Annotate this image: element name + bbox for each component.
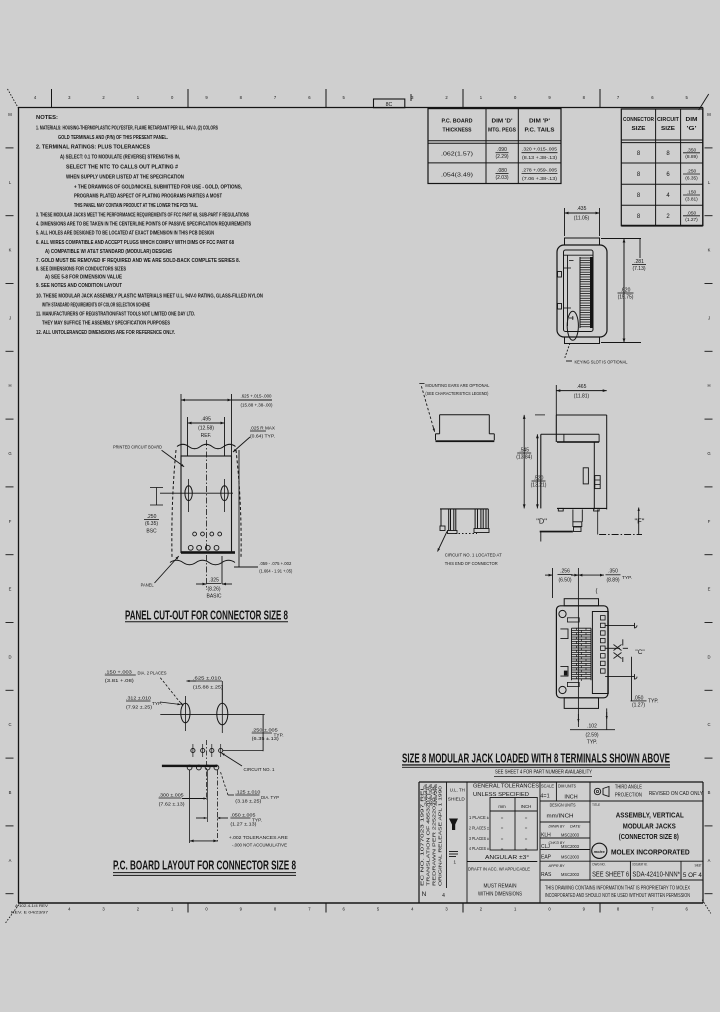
svg-text:8C: 8C: [386, 102, 393, 108]
svg-text:PROJECTION: PROJECTION: [615, 793, 642, 799]
table: P.C. board thickness / mtg pegs / pc tails: [428, 109, 561, 184]
svg-text:BSC: BSC: [146, 529, 157, 535]
svg-text:.435: .435: [577, 206, 587, 212]
svg-text:U.L. TH: U.L. TH: [450, 788, 465, 793]
svg-text:CIRCUIT NO. 1 LOCATED AT: CIRCUIT NO. 1 LOCATED AT: [445, 553, 502, 559]
svg-text:2 PLACES ±: 2 PLACES ±: [469, 826, 489, 831]
dim .256: [552, 568, 554, 598]
body left wall: [540, 434, 542, 508]
svg-text:REV. E 04/23/97: REV. E 04/23/97: [11, 910, 49, 915]
svg-text:SCALE: SCALE: [541, 784, 554, 789]
svg-text:DRWN BY: DRWN BY: [549, 824, 565, 829]
svg-text:E: E: [708, 587, 711, 592]
small detail top center: [567, 618, 579, 622]
tail holes row 2: [187, 765, 192, 770]
svg-text:mm: mm: [498, 804, 506, 809]
svg-text:MODULAR JACKS: MODULAR JACKS: [623, 821, 676, 830]
svg-text:(13.21): (13.21): [531, 483, 547, 489]
dim .350 typ: [578, 574, 604, 576]
dim .325 basic bottom: [221, 556, 223, 584]
body top mating section: [556, 414, 606, 416]
svg-text:A) SEE 5-8 FOR DIMENSION VALUE: A) SEE 5-8 FOR DIMENSION VALUE: [45, 275, 123, 281]
svg-text:5. ALL HOLES ARE DESIGNED TO B: 5. ALL HOLES ARE DESIGNED TO BE LOCATED …: [36, 231, 214, 237]
svg-text:.325: .325: [209, 578, 219, 584]
svg-text:(7.06 +.38-.13): (7.06 +.38-.13): [522, 176, 557, 182]
feet: [558, 508, 563, 511]
dim .102 bottom: [606, 708, 608, 729]
svg-text:DIA. 2 PLACES: DIA. 2 PLACES: [138, 671, 167, 677]
svg-text:SHEET: SHEET: [695, 864, 702, 868]
svg-text:SDA-42410-NNN*: SDA-42410-NNN*: [632, 869, 680, 878]
svg-text:C: C: [8, 722, 11, 727]
svg-text:MOLEX INCORPORATED: MOLEX INCORPORATED: [611, 848, 690, 857]
svg-text:SEE SHEET 4 FOR PART NUMBER AV: SEE SHEET 4 FOR PART NUMBER AVAILABILITY: [495, 770, 592, 776]
svg-text:DRAFT IN ACC. W/ APPLICABLE: DRAFT IN ACC. W/ APPLICABLE: [468, 867, 530, 872]
dim .250 BSC: [150, 487, 163, 489]
tail holes row 1: [191, 748, 195, 752]
svg-text:(15.75): (15.75): [618, 295, 634, 301]
svg-text:"F": "F": [635, 517, 645, 526]
svg-text:A 102.4-1/4 REV: A 102.4-1/4 REV: [15, 903, 48, 908]
terminal brick field: [572, 627, 592, 629]
svg-text:(6.35): (6.35): [685, 175, 698, 181]
dim .545 left: [535, 414, 545, 416]
frame border left: [18, 108, 20, 904]
svg-text:"C": "C": [635, 649, 645, 656]
svg-text:6. ALL WIRES COMPATIBLE AND AC: 6. ALL WIRES COMPATIBLE AND ACCEPT PLUGS…: [36, 240, 234, 246]
svg-text:(6.35): (6.35): [145, 521, 158, 527]
svg-text:MSC2003: MSC2003: [561, 844, 579, 849]
svg-text:DATE: DATE: [570, 824, 581, 829]
center line horizontal: [160, 714, 264, 716]
svg-text:(1.664 - 1.91 +.05): (1.664 - 1.91 +.05): [259, 569, 292, 574]
third angle projection symbol: [594, 788, 600, 794]
svg-text:(0.64) TYP.: (0.64) TYP.: [250, 434, 275, 440]
svg-text:=: =: [501, 846, 504, 851]
svg-text:MSC2003: MSC2003: [561, 872, 579, 877]
svg-text:H: H: [8, 383, 11, 388]
svg-text:=: =: [525, 826, 528, 831]
dimension .435 top width: [565, 212, 600, 214]
svg-text:KLH: KLH: [541, 833, 551, 839]
svg-text:PROGRAMS PLATED ASPECT OF PLAT: PROGRAMS PLATED ASPECT OF PLATING PROGRA…: [74, 194, 222, 200]
svg-text:P.C. TAILS: P.C. TAILS: [525, 128, 555, 134]
body bottom: [557, 507, 607, 509]
svg-text:TYP.: TYP.: [622, 575, 632, 581]
svg-text:(7.92 ±.25): (7.92 ±.25): [126, 704, 152, 710]
svg-text:(12.58): (12.58): [198, 426, 214, 432]
svg-text:CIRCUIT NO. 1: CIRCUIT NO. 1: [244, 767, 275, 773]
svg-text:(1.27): (1.27): [632, 702, 645, 708]
svg-text:THIS PANEL MAY CONTAIN PRODUCT: THIS PANEL MAY CONTAIN PRODUCT AT THE LO…: [74, 203, 198, 209]
svg-text:F: F: [9, 519, 12, 524]
svg-text:MUST REMAIN: MUST REMAIN: [484, 884, 517, 890]
svg-text:TYP.: TYP.: [274, 733, 284, 739]
mounting peg below body: [572, 509, 574, 521]
corner diagonal top-left: [8, 89, 19, 108]
svg-text:N: N: [422, 891, 427, 898]
svg-text:.256: .256: [560, 569, 570, 575]
svg-text:INCH: INCH: [521, 804, 532, 809]
svg-text:GENERAL TOLERANCES: GENERAL TOLERANCES: [473, 784, 539, 790]
bottom dim line: [190, 840, 218, 842]
finish symbol: [449, 851, 458, 853]
sheet zone box 8C at top: [374, 99, 405, 108]
panel break dashed left: [172, 450, 176, 557]
title block verticals: [446, 782, 448, 888]
svg-text:(: (: [596, 589, 598, 595]
svg-text:E: E: [9, 587, 12, 592]
svg-text:(3.81): (3.81): [685, 196, 698, 202]
svg-text:4=1: 4=1: [540, 794, 549, 800]
svg-text:=: =: [501, 826, 504, 831]
svg-text:PANEL CUT-OUT FOR CONNECTOR SI: PANEL CUT-OUT FOR CONNECTOR SIZE 8: [125, 608, 288, 623]
svg-text:8. SEE DIMENSIONS FOR CONDUCTO: 8. SEE DIMENSIONS FOR CONDUCTORS SIZES: [36, 267, 127, 273]
right vertical dim line: [631, 657, 633, 701]
svg-text:.062(1.57): .062(1.57): [441, 152, 473, 158]
svg-text:.350: .350: [608, 569, 618, 575]
svg-text:4 PLACES ±: 4 PLACES ±: [469, 846, 489, 851]
svg-text:THEY MAY SUFFICE THE ASSEMBLY: THEY MAY SUFFICE THE ASSEMBLY SPECIFICAT…: [42, 321, 171, 327]
svg-text:PANEL: PANEL: [141, 583, 154, 589]
svg-text:DIM 'D': DIM 'D': [492, 119, 514, 125]
svg-text:DWG NO.: DWG NO.: [593, 863, 606, 867]
svg-text:(2.29): (2.29): [495, 154, 508, 160]
top tab: [564, 599, 598, 606]
dim .520 inner: [536, 434, 538, 508]
svg-text:+.002 TOLERANCES ARE: +.002 TOLERANCES ARE: [229, 835, 288, 841]
svg-text:B: B: [9, 790, 12, 795]
center line dashed: [206, 440, 208, 590]
svg-text:mm/INCH: mm/INCH: [547, 814, 574, 820]
svg-text:K: K: [708, 248, 711, 253]
svg-text:2/8/4/8: 2/8/4/8: [424, 784, 428, 806]
svg-text:(6.50): (6.50): [558, 578, 571, 584]
svg-text:(SEE CHARACTERISTICS LEGEND): (SEE CHARACTERISTICS LEGEND): [425, 391, 488, 397]
svg-text:MTG. PEGS: MTG. PEGS: [488, 128, 516, 134]
label mounting ears optional: [419, 383, 424, 385]
frame border top: [18, 107, 703, 109]
svg-text:C: C: [707, 722, 710, 727]
wavy board break top: [177, 444, 235, 448]
svg-text:THIRD ANGLE: THIRD ANGLE: [615, 785, 643, 791]
pcb line left thick: [540, 531, 573, 533]
triangle symbol: [449, 819, 458, 831]
svg-text:.278 +.059-.005: .278 +.059-.005: [522, 167, 557, 173]
terminal holes row 2: [188, 545, 193, 550]
svg-text:(15.88 +.38-.00): (15.88 +.38-.00): [241, 403, 273, 409]
svg-text:J: J: [9, 315, 11, 320]
dimension .620 right height: [601, 238, 641, 240]
svg-text:G: G: [707, 451, 710, 456]
svg-text:(11.81): (11.81): [574, 394, 590, 400]
svg-text:THICKNESS: THICKNESS: [443, 128, 472, 134]
svg-text:TYP.: TYP.: [252, 818, 262, 824]
bottom mounting tab: [565, 337, 600, 344]
svg-text:3 PLACES ±: 3 PLACES ±: [469, 836, 489, 841]
svg-text:9. SEE NOTES AND CONDITION LAY: 9. SEE NOTES AND CONDITION LAYOUT: [36, 283, 122, 289]
figure: connector end view: [440, 508, 488, 510]
tolerance table: [490, 798, 537, 851]
svg-text:SEE SHEET 6: SEE SHEET 6: [592, 869, 629, 878]
terminal exit block: [592, 612, 608, 694]
svg-text:DIM 'P': DIM 'P': [529, 119, 551, 125]
svg-text:APPR BY: APPR BY: [548, 863, 565, 868]
svg-text:DOCUMENT NO.: DOCUMENT NO.: [632, 863, 647, 867]
svg-text:7. GOLD MUST BE REMOVED IF REQ: 7. GOLD MUST BE REMOVED IF REQUIRED AND …: [36, 258, 241, 264]
svg-text:.495: .495: [201, 417, 211, 423]
svg-text:WITHIN DIMENSIONS: WITHIN DIMENSIONS: [478, 892, 523, 898]
svg-text:.465: .465: [577, 384, 587, 390]
svg-text:(7.62 ±.13): (7.62 ±.13): [159, 801, 185, 807]
svg-text:WITH STANDARD REQUIREMENTS OF: WITH STANDARD REQUIREMENTS OF COLOR SELE…: [42, 303, 150, 309]
svg-text:(7.13): (7.13): [632, 266, 645, 272]
terminal holes row 1: [193, 532, 197, 536]
svg-text:REVISED ON CAD ONLY: REVISED ON CAD ONLY: [649, 791, 703, 797]
label .059-.075 right: [234, 566, 258, 568]
svg-text:(8.89): (8.89): [606, 578, 619, 584]
svg-text:SIZE: SIZE: [632, 126, 646, 132]
svg-text:DIM UNITS: DIM UNITS: [558, 784, 576, 789]
svg-text:4. DIMENSIONS ARE TO BE TAKEN: 4. DIMENSIONS ARE TO BE TAKEN IN THE CEN…: [36, 222, 252, 228]
title block horizontals: [540, 800, 703, 802]
mounting holes: [185, 486, 192, 501]
label circuit no 1: [222, 753, 243, 766]
title block outline: [419, 781, 703, 783]
svg-text:12. ALL UNTOLERANCED DIMENSION: 12. ALL UNTOLERANCED DIMENSIONS ARE FOR …: [36, 330, 176, 336]
svg-text:molex: molex: [594, 849, 606, 854]
svg-text:=: =: [525, 815, 528, 820]
svg-text:11. MANUFACTURERS OF REGISTRAT: 11. MANUFACTURERS OF REGISTRATION/FAST T…: [36, 312, 195, 318]
top mounting tab: [565, 238, 600, 245]
svg-text:THIS DRAWING CONTAINS INFORMAT: THIS DRAWING CONTAINS INFORMATION THAT I…: [545, 885, 691, 891]
svg-text:KEYING SLOT IS OPTIONAL: KEYING SLOT IS OPTIONAL: [575, 360, 628, 365]
body right wall below flange: [593, 442, 595, 509]
svg-text:A) COMPATIBLE W/ AT&T STANDARD: A) COMPATIBLE W/ AT&T STANDARD (MODULAR)…: [45, 249, 173, 255]
wavy board break bottom: [170, 560, 235, 564]
side window: [583, 468, 588, 484]
svg-text:G: G: [8, 451, 11, 456]
svg-text:M: M: [8, 112, 12, 117]
connector body outline: [557, 245, 607, 337]
svg-text:=: =: [501, 836, 504, 841]
frame border right upper segment: [702, 108, 704, 227]
terminal tails right: [605, 624, 631, 626]
svg-text:J: J: [708, 315, 710, 320]
svg-text:(3.81 +.08): (3.81 +.08): [105, 678, 134, 684]
svg-text:SELECT THE NTC TO CALLS OUT PL: SELECT THE NTC TO CALLS OUT PLATING #: [66, 165, 178, 171]
svg-text:(8.26): (8.26): [207, 587, 220, 593]
svg-text:TYP.: TYP.: [648, 698, 658, 704]
keying slot oval: [567, 311, 578, 340]
top ruler zone ticks: [51, 89, 53, 108]
svg-text:EAP: EAP: [541, 855, 552, 861]
cutout rectangle: [181, 456, 232, 553]
svg-text:DIM: DIM: [686, 117, 698, 123]
corner diagonal bottom-right: [702, 900, 711, 914]
svg-text:ASSEMBLY, VERTICAL: ASSEMBLY, VERTICAL: [616, 811, 684, 820]
boss circles left: [559, 610, 566, 617]
svg-text:D: D: [707, 654, 710, 659]
svg-text:(1.27): (1.27): [685, 217, 698, 223]
svg-text:.625 +.015-.000: .625 +.015-.000: [241, 394, 272, 400]
svg-text:NOTES:: NOTES:: [36, 115, 58, 121]
terminal comb: [579, 257, 581, 328]
svg-text:WHEN SUPPLY UNDER LISTED AT TH: WHEN SUPPLY UNDER LISTED AT THE SPECIFIC…: [66, 175, 184, 181]
svg-text:=: =: [525, 836, 528, 841]
panel break dashed right: [236, 450, 241, 557]
tail hooks: [632, 623, 638, 628]
svg-text:H: H: [707, 383, 710, 388]
svg-text:4: 4: [442, 893, 445, 899]
svg-text:ANGULAR ±3°: ANGULAR ±3°: [485, 855, 529, 861]
svg-text:3/8/2/8: 3/8/2/8: [434, 784, 438, 806]
svg-text:(11.05): (11.05): [574, 216, 590, 222]
corner diagonal bottom-left: [6, 902, 21, 923]
svg-text:+ THE DRAWINGS OF GOLD/NICKEL: + THE DRAWINGS OF GOLD/NICKEL SUBMITTED …: [74, 185, 243, 191]
corner diagonal top-right: [699, 94, 709, 110]
left wall notches: [558, 272, 562, 278]
svg-text:.054(3.49): .054(3.49): [441, 173, 473, 179]
svg-text:SHIELD: SHIELD: [448, 797, 466, 802]
svg-text:GOLD TERMINALS AND (P/N) OF TH: GOLD TERMINALS AND (P/N) OF THIS PRESENT…: [58, 135, 168, 141]
svg-text:ORIGINAL RELEASE APL 1 1990: ORIGINAL RELEASE APL 1 1990: [438, 785, 443, 886]
svg-text:"D": "D": [536, 517, 547, 526]
svg-text:1 PLACE ±: 1 PLACE ±: [469, 815, 490, 820]
svg-text:B: B: [708, 790, 711, 795]
svg-text:3. THESE MODULAR JACKS MEET TH: 3. THESE MODULAR JACKS MEET THE PERFORMA…: [36, 213, 249, 219]
svg-text:(8.89): (8.89): [685, 154, 698, 160]
svg-text:SIZE 8 MODULAR JACK LOADED WIT: SIZE 8 MODULAR JACK LOADED WITH 8 TERMIN…: [402, 751, 670, 766]
svg-text:=: =: [501, 815, 504, 820]
dim .250 pm .005 right: [262, 715, 264, 752]
svg-text:PRINTED CIRCUIT BOARD: PRINTED CIRCUIT BOARD: [113, 445, 162, 451]
molex logo: [592, 843, 607, 858]
frame border bottom: [18, 902, 703, 904]
dimension .465 top: [556, 390, 606, 392]
svg-text:DIA. TYP: DIA. TYP: [261, 795, 279, 801]
svg-text:(2.59): (2.59): [585, 733, 598, 739]
svg-text:MSC2003: MSC2003: [561, 833, 579, 838]
svg-text:INCORPORATED AND SHOULD NOT BE: INCORPORATED AND SHOULD NOT BE USED WITH…: [545, 893, 690, 899]
body outline bottom view: [556, 606, 608, 698]
dimension .495: [188, 422, 225, 424]
svg-text:4/8/3/8: 4/8/3/8: [429, 784, 433, 806]
svg-text:(8.13 +.38-.13): (8.13 +.38-.13): [522, 155, 557, 161]
svg-text:.059 - .075 +.002: .059 - .075 +.002: [259, 561, 291, 566]
svg-text:5 OF 4: 5 OF 4: [683, 872, 702, 879]
svg-text:D: D: [8, 654, 11, 659]
svg-text:P.C. BOARD: P.C. BOARD: [442, 119, 473, 125]
svg-text:(15.88 ±.25): (15.88 ±.25): [193, 684, 223, 690]
dimension .625 cutout width: [181, 399, 232, 401]
svg-text:(CONNECTOR SIZE 8): (CONNECTOR SIZE 8): [619, 832, 679, 841]
svg-text:M: M: [707, 112, 711, 117]
svg-text:=: =: [525, 846, 528, 851]
svg-text:THIS END OF CONNECTOR: THIS END OF CONNECTOR: [445, 561, 498, 567]
svg-text:.102: .102: [587, 724, 597, 730]
board edge thick line: [162, 765, 218, 767]
svg-text:(2.03): (2.03): [495, 175, 508, 181]
table: connector size / circuit size / dim G: [621, 109, 702, 226]
bottom ruler zone ticks: [187, 903, 189, 913]
mounting ear profile: [440, 414, 490, 416]
svg-text:P.C. BOARD LAYOUT FOR CONNECTO: P.C. BOARD LAYOUT FOR CONNECTOR SIZE 8: [113, 858, 296, 873]
svg-text:CLJ: CLJ: [541, 844, 550, 850]
svg-text:F: F: [708, 519, 711, 524]
svg-text:MSC2003: MSC2003: [561, 855, 579, 860]
leader: keying slot is optional: [565, 343, 570, 358]
svg-text:1. MATERIALS: HOUSING-THERMOPL: 1. MATERIALS: HOUSING-THERMOPLASTIC POLY…: [36, 126, 218, 132]
svg-text:SIZE: SIZE: [661, 126, 675, 132]
mounting hole ellipses: [181, 703, 190, 723]
svg-text:CONNECTOR: CONNECTOR: [623, 117, 654, 123]
svg-text:MOUNTING EARS ARE OPTIONAL: MOUNTING EARS ARE OPTIONAL: [425, 383, 489, 389]
svg-text:(3.18 ±.25): (3.18 ±.25): [235, 798, 261, 804]
svg-text:'G': 'G': [687, 126, 698, 132]
svg-text:RAS: RAS: [541, 872, 552, 878]
svg-text:TITLE: TITLE: [592, 802, 600, 807]
right extension line: [238, 450, 240, 567]
svg-text:A) SELECT: 0.1 TO MODULATE (RE: A) SELECT: 0.1 TO MODULATE (REVERSE) STR…: [60, 155, 181, 161]
extension dashed vertical: [216, 770, 218, 843]
terminal pins: [601, 616, 606, 620]
svg-text:DESIGN UNITS: DESIGN UNITS: [550, 803, 576, 808]
svg-text:A: A: [708, 858, 711, 863]
svg-text:REF.: REF.: [201, 433, 212, 439]
svg-text:10. THESE MODULAR JACK ASSEMBL: 10. THESE MODULAR JACK ASSEMBLY PLASTIC …: [36, 294, 263, 300]
latch detail: [595, 476, 600, 489]
svg-text:TYP.: TYP.: [587, 740, 597, 746]
inner opening: [564, 250, 594, 332]
centerline vertical: [577, 568, 579, 727]
svg-text:BASIC: BASIC: [206, 594, 221, 600]
svg-text:-.000 NOT ACCUMULATIVE: -.000 NOT ACCUMULATIVE: [232, 843, 287, 849]
flange: [541, 433, 599, 435]
end view terminal bars: [448, 509, 450, 531]
left wall latch steps: [560, 629, 568, 639]
leader circuit no 1: [438, 532, 448, 552]
pcb line right dash-dot: [599, 534, 642, 536]
svg-text:(13.84): (13.84): [516, 455, 532, 461]
break X marks: [614, 645, 622, 651]
svg-text:.320 +.015-.005: .320 +.015-.005: [522, 147, 557, 153]
svg-text:K: K: [9, 248, 12, 253]
svg-text:2. TERMINAL RATINGS: PLUS TOLE: 2. TERMINAL RATINGS: PLUS TOLERANCES: [36, 145, 151, 151]
bottom tab: [564, 698, 598, 709]
svg-text:CIRCUIT: CIRCUIT: [657, 117, 680, 123]
svg-text:A: A: [9, 858, 12, 863]
svg-text:INCH: INCH: [564, 795, 577, 801]
